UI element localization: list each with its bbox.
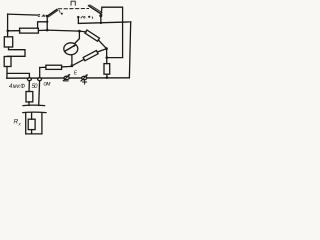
battery terminal minus circle: [64, 76, 69, 79]
wire bottom vertex to lower arm: [72, 60, 84, 66]
wire zigzag jog between R1 R2: [7, 47, 25, 56]
switch S1 label 3: [38, 14, 39, 16]
wire upper arm to right vertex: [98, 40, 106, 49]
wire R8 to plate: [28, 102, 30, 106]
svg-text:x: x: [18, 122, 22, 127]
svg-text:ом: ом: [44, 82, 51, 88]
wire resistor line right: [38, 29, 47, 31]
wire T2 down to capacitor: [38, 81, 41, 106]
wire drop to terminal T2: [39, 68, 41, 79]
node junction dot left resistor line: [7, 30, 10, 33]
switch S1 blade second stroke: [48, 10, 58, 17]
switch S2 blade: [89, 6, 102, 15]
wire right vertex down: [106, 49, 108, 64]
battery terminal minus tick arrow: [63, 75, 69, 81]
switch S2 label 0: [84, 17, 86, 19]
galvanometer needle: [65, 45, 75, 51]
switch S2 mid contact dot: [88, 16, 90, 18]
switch S2 pivot contact: [99, 14, 102, 17]
resistor R7 horizontal lower box: [46, 65, 62, 69]
linkage dashed bar П: [59, 8, 89, 10]
battery terminal plus circle: [82, 76, 87, 79]
terminal T2 circle: [38, 78, 42, 81]
switch S1 label 1: [59, 11, 61, 13]
wire S2 pivot down: [100, 16, 102, 23]
label plus sign: [83, 80, 87, 84]
shield box right side: [41, 113, 43, 134]
capacitor C1 plate bottom: [23, 111, 46, 114]
node bridge right vertex: [105, 47, 108, 50]
wire lower resistor line: [62, 65, 72, 68]
switch S1 label 2: [42, 15, 44, 17]
wire lower arm to right vertex: [98, 49, 107, 52]
resistor R4 upper bridge arm slanted: [85, 30, 100, 41]
wire below R2: [6, 67, 8, 79]
node dot on line B: [100, 22, 102, 24]
resistor R5 right vertical box: [104, 64, 110, 75]
shield box bottom: [26, 133, 42, 135]
resistor R3 horizontal top-left box: [20, 28, 39, 33]
wire V2 right vertical: [129, 22, 130, 78]
galvanometer needle arrowhead: [73, 45, 76, 47]
wire bridge top node line: [47, 30, 79, 31]
wire branch to capacitor terminal: [7, 73, 29, 78]
node dot S1 vertical upper: [46, 21, 48, 23]
resistor R6 lower bridge arm slanted: [83, 50, 98, 60]
svg-text:Е: Е: [74, 70, 78, 76]
label minus sign: [64, 80, 68, 82]
switch S1 right contact dot: [61, 13, 63, 15]
svg-text:4мкФ: 4мкФ: [9, 84, 25, 90]
node dot S1 vertical lower: [46, 29, 49, 32]
wire Rx bottom stub: [31, 130, 33, 134]
wire left vertical top: [7, 14, 9, 37]
node dot at V1 junction: [106, 56, 109, 59]
wire Rx top stub: [31, 113, 33, 120]
wire top-left horizontal: [8, 14, 38, 15]
resistor R1 left vertical box: [4, 37, 12, 47]
node dot R5 bus: [106, 76, 109, 79]
wire S2 left contact drop: [77, 18, 79, 24]
wire R5 to bus: [106, 74, 108, 77]
resistor Rx box: [28, 119, 35, 129]
label П switch name: [71, 1, 75, 5]
wire line B right: [78, 22, 130, 24]
shield box around Rx left side: [25, 113, 27, 134]
resistor R8 small box below T1: [26, 92, 33, 102]
switch S2 left contact dot: [77, 16, 79, 18]
battery terminal plus tick arrow: [81, 75, 87, 81]
node bridge top vertex: [78, 30, 81, 33]
wire S2 pivot riser to line A: [100, 7, 103, 12]
terminal T1 circle: [28, 78, 32, 81]
svg-text:50: 50: [32, 84, 39, 90]
wire T1 down to capacitor: [28, 81, 30, 92]
wire vertex to upper arm: [79, 30, 86, 33]
wire line A top right: [102, 7, 123, 58]
wire switch S1 feed rectangle: [38, 22, 48, 28]
switch S1 contact dot: [46, 15, 48, 17]
bus bottom horizontal: [7, 77, 129, 79]
switch S1 blade: [47, 9, 57, 16]
switch S2 label 1: [91, 17, 93, 19]
switch S1 label 0: [43, 15, 45, 16]
wire galvanometer top bent: [75, 31, 80, 43]
switch S2 label 2: [81, 16, 82, 18]
wire galvanometer bottom: [71, 55, 73, 66]
wire resistor line left: [8, 30, 20, 32]
wire S1 contact vertical: [46, 16, 48, 30]
galvanometer G circle: [64, 43, 78, 55]
wire lower resistor line left: [40, 66, 46, 68]
node bridge bottom vertex: [71, 64, 74, 67]
resistor R2 left vertical box: [4, 57, 11, 67]
capacitor C1 plate top: [23, 104, 45, 107]
switch S2 blade second stroke: [90, 5, 102, 13]
